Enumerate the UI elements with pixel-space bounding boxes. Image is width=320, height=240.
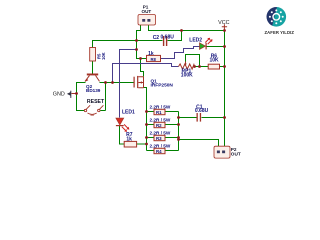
svg-text:ZAFER YILDIZ: ZAFER YILDIZ xyxy=(265,30,295,35)
resistor R8 xyxy=(147,51,161,62)
wire: R4 row xyxy=(147,150,179,152)
resistor R2 xyxy=(150,117,171,128)
svg-text:R3: R3 xyxy=(156,136,162,141)
svg-text:100K: 100K xyxy=(181,73,193,79)
capacitor C1 xyxy=(195,105,209,122)
junction at RP1 wiper / R6 row xyxy=(198,65,201,68)
svg-text:R8: R8 xyxy=(151,57,157,62)
logo Zafer Yildiz xyxy=(265,7,295,35)
wire: LED1 cathode down to R7 and R7 right to left bus xyxy=(120,126,147,145)
svg-text:R1: R1 xyxy=(156,110,162,115)
svg-text:RESET: RESET xyxy=(87,99,105,105)
wire: branch from right bus to P2 pin1 xyxy=(179,140,219,147)
wire: C1 row between right bus and VCC rail xyxy=(179,117,225,119)
wire: Q2 right leg to gate row and riser down to RESET right contact xyxy=(100,83,113,111)
resistor R5 (vertical, base feed) xyxy=(90,48,106,62)
svg-text:OUT: OUT xyxy=(142,9,152,14)
wire: purple drain tap down to LED1 anode xyxy=(120,50,137,118)
LED2 (green) xyxy=(189,38,212,50)
svg-text:R4: R4 xyxy=(156,149,162,154)
junction at right bus / R2 row xyxy=(177,123,180,126)
junction at LED2 row / VCC rail xyxy=(223,45,226,48)
svg-text:2.2R / 5W: 2.2R / 5W xyxy=(150,130,171,135)
wire: C2 right riser to row A xyxy=(168,31,182,41)
resistor R6 xyxy=(208,54,219,69)
LED1 (red) xyxy=(116,110,135,132)
ground GND terminal xyxy=(53,91,71,98)
junction at left bus / R7 row xyxy=(145,143,148,146)
wire: R6 right to VCC rail xyxy=(220,66,225,68)
junction at right bus / P2 branch xyxy=(177,138,180,141)
wire: RP1 wiper bracket to right terminal xyxy=(186,55,200,67)
resistor R3 xyxy=(150,130,171,141)
wire: drain branch from R8 row to Q1 drain xyxy=(141,59,144,77)
svg-text:VCC: VCC xyxy=(218,20,229,26)
svg-text:IRFP250N: IRFP250N xyxy=(151,83,174,89)
wire: LED2 cathode to VCC rail xyxy=(207,46,225,48)
connector P2 xyxy=(214,146,241,158)
svg-text:2.2R / 5W: 2.2R / 5W xyxy=(150,104,171,109)
svg-text:1k: 1k xyxy=(126,136,132,142)
junction at Q2 right leg / RESET riser xyxy=(104,81,107,84)
svg-text:1k: 1k xyxy=(148,51,154,57)
wire: purple RP1 left wire and riser to gate row xyxy=(113,64,179,83)
wire: VCC rail down to P2 pin2 xyxy=(224,30,226,147)
svg-text:OUT: OUT xyxy=(231,151,241,156)
svg-text:0.68U: 0.68U xyxy=(161,34,175,40)
wire: R3 row xyxy=(147,137,179,139)
pushbutton RESET xyxy=(84,99,105,115)
svg-text:R2: R2 xyxy=(156,123,162,128)
junction at gate row / purple riser xyxy=(111,81,114,84)
transistor Q1 IRFP250N (MOSFET) xyxy=(134,76,174,89)
resistor R7 xyxy=(124,132,136,147)
transistor Q2 BD139 xyxy=(85,74,101,93)
junction at RP1 right terminal xyxy=(193,65,196,68)
wire: GND red stub xyxy=(72,93,77,95)
wire: purple stair from R8 right to LED2 anode xyxy=(161,47,200,59)
junction at right bus / C1 row xyxy=(177,116,180,119)
power VCC terminal xyxy=(218,20,229,30)
junction at left bus / R1 row xyxy=(145,110,148,113)
wire: Q1 source down, left bus of shunt stack xyxy=(144,88,147,151)
wire: Q1 gate row xyxy=(113,82,134,84)
wire: row B from R5 top to C2 left xyxy=(93,41,163,48)
resistor R4 xyxy=(150,143,171,154)
wire: Q2 base from R5 bottom xyxy=(92,61,94,74)
junction at R6 / VCC rail xyxy=(223,65,226,68)
wire: R2 row xyxy=(147,124,179,126)
wire: RP1 right terminal to R6 left xyxy=(195,66,209,68)
resistor R1 (2.2R/5W shunt) xyxy=(150,104,171,115)
wire: R1 row xyxy=(147,111,179,113)
capacitor C2 xyxy=(153,34,175,46)
junction at C1 row / VCC rail xyxy=(223,116,226,119)
wire: right bus of shunt stack xyxy=(178,112,180,151)
junction at R8 row / drain branch xyxy=(139,57,142,60)
junction at row A / C2 riser xyxy=(180,29,183,32)
svg-text:LED2: LED2 xyxy=(189,38,202,44)
svg-text:2.2R / 5W: 2.2R / 5W xyxy=(150,143,171,148)
wire: top bus row A (P1 pin2 to VCC rail) xyxy=(149,25,225,31)
junction at row A / VCC rail xyxy=(223,29,226,32)
junction at left bus / R2 row xyxy=(145,123,148,126)
wire: P1 pin1 jog down-left and vertical to R8 row xyxy=(137,25,147,59)
svg-text:LED1: LED1 xyxy=(122,110,135,116)
svg-text:2.2R / 5W: 2.2R / 5W xyxy=(150,117,171,122)
connector P1 xyxy=(138,5,156,25)
svg-text:GND: GND xyxy=(53,92,65,98)
junction at drain net / LED1 purple tap xyxy=(135,48,138,51)
svg-text:BD139: BD139 xyxy=(86,88,101,93)
junction at P1 pin1 / row B xyxy=(135,39,138,42)
junction at right bus / R3 row xyxy=(177,136,180,139)
svg-text:0.68U: 0.68U xyxy=(195,108,209,114)
svg-text:10K: 10K xyxy=(101,52,106,60)
potentiometer RP1 100K xyxy=(179,62,195,79)
svg-text:10K: 10K xyxy=(210,57,220,63)
junction at GND rail xyxy=(75,92,78,95)
svg-text:C2: C2 xyxy=(153,35,160,41)
junction at left bus / R3 row xyxy=(145,136,148,139)
wire: Q2 left leg, GND rail down to RESET left contact xyxy=(77,83,86,111)
